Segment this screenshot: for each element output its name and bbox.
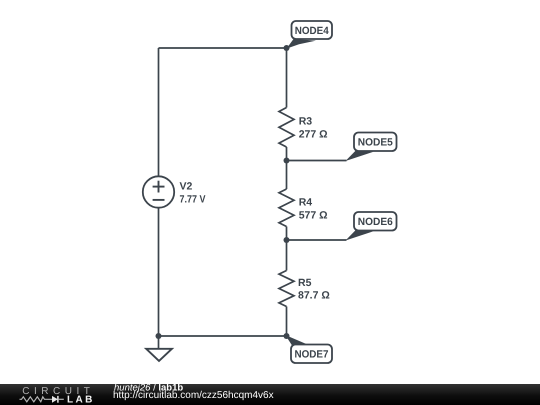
- junction: NODE6: [284, 237, 290, 243]
- junction: NODE4: [284, 45, 290, 51]
- resistor R5: [279, 271, 330, 307]
- node flag NODE5: [346, 133, 397, 162]
- wire: NODE5 stub: [287, 160, 347, 162]
- svg-text:LAB: LAB: [67, 394, 95, 405]
- wire: top horizontal: [159, 47, 287, 49]
- svg-text:277 Ω: 277 Ω: [299, 129, 328, 141]
- ground: [146, 336, 172, 361]
- wire: NODE6 stub: [287, 239, 347, 241]
- logo resistor zigzag: [20, 397, 53, 402]
- svg-text:87.7 Ω: 87.7 Ω: [298, 290, 330, 302]
- svg-text:R4: R4: [299, 197, 313, 209]
- resistor R4: [279, 189, 328, 227]
- node flag NODE6: [346, 212, 397, 241]
- voltage source V2: [143, 176, 206, 207]
- resistor R3: [279, 108, 328, 148]
- wire: R3 to R4: [286, 147, 288, 189]
- junction: NODE5: [284, 158, 290, 164]
- svg-text:NODE5: NODE5: [358, 137, 393, 149]
- wire: left vertical lower: [158, 208, 160, 336]
- node flag NODE4: [287, 21, 333, 49]
- footer bar: [0, 384, 540, 405]
- junction: ground node: [156, 333, 162, 339]
- wire: R5 to NODE7: [286, 307, 288, 337]
- wire: R4 to R5: [286, 227, 288, 271]
- wire: bottom horizontal: [159, 335, 287, 337]
- svg-text:NODE4: NODE4: [295, 25, 329, 37]
- node flag NODE7: [285, 335, 332, 363]
- svg-text:V2: V2: [180, 181, 193, 193]
- logo diode: [52, 396, 64, 403]
- svg-text:NODE6: NODE6: [358, 216, 393, 228]
- svg-text:577 Ω: 577 Ω: [299, 210, 328, 222]
- svg-text:R5: R5: [298, 277, 312, 289]
- svg-text:R3: R3: [299, 116, 313, 128]
- wire: left vertical upper: [158, 48, 160, 176]
- svg-text:7.77 V: 7.77 V: [180, 194, 206, 206]
- wire: right vertical NODE4 to R3: [286, 48, 288, 108]
- svg-text:http://circuitlab.com/czz56hcq: http://circuitlab.com/czz56hcqm4v6x: [113, 390, 274, 401]
- svg-text:NODE7: NODE7: [295, 349, 329, 361]
- junction: NODE7: [284, 333, 290, 339]
